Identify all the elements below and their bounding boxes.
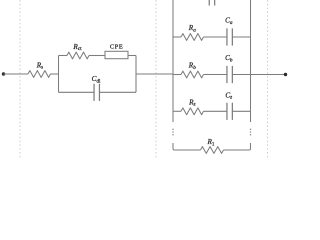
node: right block left rail	[172, 0, 174, 122]
node: mid block right rail	[135, 56, 137, 93]
wire	[173, 36, 181, 38]
resistor Rct	[67, 52, 89, 59]
wire	[99, 91, 136, 93]
ellipsis dots left rail	[172, 129, 174, 136]
wire	[204, 36, 227, 38]
svg-text:CPE: CPE	[110, 43, 123, 50]
wire	[4, 73, 29, 75]
node: mid block left rail	[58, 56, 60, 93]
wire	[59, 55, 68, 57]
wire R1 branch right	[224, 143, 251, 150]
capacitor C top (cut off)	[209, 0, 214, 6]
wire	[232, 74, 250, 76]
wire	[59, 91, 95, 93]
resistor Rs	[28, 71, 51, 78]
wire	[204, 110, 227, 112]
capacitor Cb	[227, 66, 232, 83]
resistor Ra	[181, 34, 204, 41]
CPE box	[105, 51, 128, 58]
wire R1 branch	[173, 143, 201, 150]
wire	[89, 55, 105, 57]
dashed boundary line left	[19, 0, 21, 158]
wire	[136, 73, 173, 75]
ellipsis dots right rail	[250, 129, 252, 136]
resistor Rz	[181, 108, 204, 115]
capacitor Cdl	[94, 84, 99, 101]
capacitor Ca	[227, 28, 232, 45]
resistor Rb	[181, 71, 204, 78]
wire	[232, 110, 250, 112]
node: right block right rail	[250, 0, 252, 122]
capacitor Cz	[227, 103, 232, 120]
wire	[128, 55, 136, 57]
wire	[232, 36, 250, 38]
dashed boundary line middle	[155, 0, 157, 158]
terminal node right	[284, 73, 287, 76]
resistor R1	[201, 147, 224, 154]
wire	[51, 73, 59, 75]
wire	[204, 74, 227, 76]
terminal node left	[2, 72, 5, 75]
wire	[173, 74, 181, 76]
wire	[251, 74, 286, 76]
dashed boundary line right	[267, 0, 269, 158]
equivalent circuit schematic	[0, 0, 290, 158]
wire	[173, 110, 181, 112]
